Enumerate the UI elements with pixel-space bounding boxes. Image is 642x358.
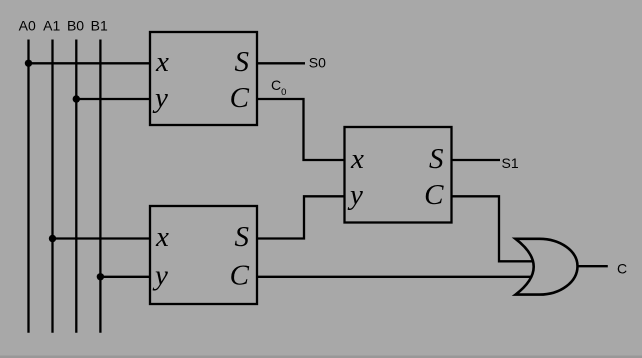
svg-text:x: x (350, 143, 364, 175)
svg-text:S1: S1 (502, 155, 519, 171)
svg-text:B0: B0 (67, 18, 84, 34)
bottom edge strip (0, 356, 642, 358)
node junction A0/U1 (25, 60, 32, 67)
svg-text:S: S (235, 46, 250, 78)
wire B0 to U1 y input (76, 98, 150, 100)
svg-text:C: C (230, 259, 250, 291)
svg-text:C: C (617, 261, 627, 277)
wire A1 vertical bus (51, 40, 53, 333)
or-gate G1 (516, 239, 578, 295)
wire B1 to U3 y input (100, 276, 150, 278)
svg-text:S: S (429, 143, 444, 175)
node junction B1/U3 (97, 273, 104, 280)
svg-text:x: x (155, 221, 169, 253)
svg-text:y: y (152, 82, 168, 114)
wire U1 C output to U2 x input (node C0) (257, 99, 345, 160)
wire A1 to U3 x input (53, 237, 151, 239)
wire G1 output to C (578, 265, 608, 267)
wire B1 vertical bus (99, 40, 101, 333)
wire U2 S output to S1 (452, 159, 501, 161)
wire U3 S output to U2 y input (257, 196, 345, 238)
half adder U1 (150, 32, 257, 125)
svg-text:x: x (155, 46, 169, 78)
wire A0 vertical bus (27, 40, 29, 333)
svg-text:S: S (235, 221, 250, 253)
wire U1 S output to S0 (257, 62, 305, 64)
half adder U3 (150, 206, 257, 304)
svg-text:y: y (152, 259, 168, 291)
svg-text:C: C (424, 179, 444, 211)
svg-text:B1: B1 (91, 18, 108, 34)
svg-text:y: y (347, 179, 363, 211)
wire U2 C output to OR gate upper input (452, 196, 533, 261)
node junction A1/U3 (49, 235, 56, 242)
svg-text:S0: S0 (309, 54, 326, 70)
half adder U2 (345, 127, 452, 223)
svg-text:A0: A0 (19, 18, 36, 34)
svg-text:C: C (230, 82, 250, 114)
wire U3 C output to OR gate lower input (257, 276, 531, 278)
svg-text:A1: A1 (43, 18, 60, 34)
wire A0 to U1 x input (29, 62, 151, 64)
wire B0 vertical bus (75, 40, 77, 333)
node junction B0/U1 (73, 95, 80, 102)
